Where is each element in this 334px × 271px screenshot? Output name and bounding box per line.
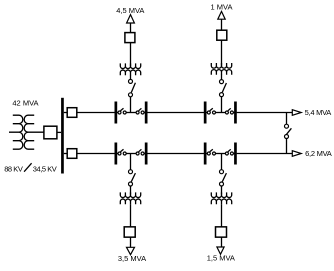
svg-text:6,2 MVA: 6,2 MVA xyxy=(305,149,332,158)
svg-text:3,5 MVA: 3,5 MVA xyxy=(118,254,146,263)
svg-text:1,5 MVA: 1,5 MVA xyxy=(207,254,235,263)
svg-text:88 KV: 88 KV xyxy=(4,164,23,173)
svg-text:34,5 KV: 34,5 KV xyxy=(33,164,57,173)
svg-text:42 MVA: 42 MVA xyxy=(12,98,38,107)
svg-text:5,4 MVA: 5,4 MVA xyxy=(305,108,332,117)
